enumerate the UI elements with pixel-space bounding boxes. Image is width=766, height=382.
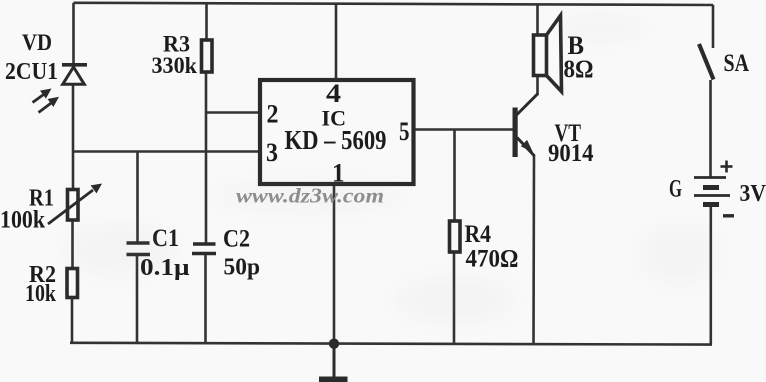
wire top supply rail: [74, 3, 714, 5]
wire left rail upper segment: [72, 3, 75, 64]
wire IC pin4 to supply rail: [335, 4, 338, 80]
svg-text:2: 2: [267, 100, 279, 129]
wire C1 top to node row: [136, 152, 139, 244]
ground symbol: [319, 343, 348, 382]
op-amp IC KD-5609 box: [260, 80, 414, 184]
transistor VT 9014: [513, 94, 539, 158]
label battery plus: [721, 161, 733, 173]
wire right rail top to switch: [712, 5, 715, 48]
wire IC pin2 to R3 line: [206, 111, 259, 114]
resistor R2: [67, 269, 78, 298]
wire IC pin1 to bottom rail: [333, 185, 336, 344]
wire bottom ground rail: [70, 343, 712, 345]
wire switch to battery positive: [709, 80, 712, 177]
svg-text:8Ω: 8Ω: [564, 56, 594, 83]
svg-text:3: 3: [266, 138, 278, 167]
wire emitter down to bottom rail: [532, 155, 535, 344]
svg-text:VD: VD: [22, 30, 52, 55]
svg-text:G: G: [669, 176, 682, 203]
svg-text:100k: 100k: [0, 207, 45, 234]
svg-text:5: 5: [399, 117, 410, 146]
wire speaker top to supply rail: [536, 4, 539, 35]
wire node row y=151 from left rail to IC pin3: [73, 150, 259, 153]
svg-text:50p: 50p: [224, 254, 261, 281]
label battery minus: [723, 214, 734, 217]
wire R3 top to supply rail: [205, 3, 208, 40]
resistor R4: [450, 221, 461, 252]
wire below R2 to bottom rail: [71, 299, 74, 344]
svg-text:KD – 5609: KD – 5609: [285, 125, 387, 155]
svg-text:C2: C2: [223, 226, 250, 253]
wire between R1 and R2: [71, 221, 74, 267]
svg-text:10k: 10k: [25, 281, 57, 307]
wire left rail below diode: [72, 84, 75, 189]
svg-text:3V: 3V: [740, 180, 766, 207]
resistor R3: [202, 40, 213, 72]
wire R4 top to pin5 wire: [453, 130, 456, 222]
photodiode VD 2CU1: [33, 65, 88, 113]
svg-text:330k: 330k: [152, 53, 198, 79]
faint scan smudges: [0, 0, 1, 1]
capacitor C2: [192, 244, 216, 254]
wire IC pin5 to transistor base: [415, 128, 514, 131]
wire battery negative to bottom rail: [709, 206, 712, 345]
capacitor C1: [127, 243, 151, 255]
svg-text:2CU1: 2CU1: [5, 59, 58, 85]
svg-text:4: 4: [326, 79, 341, 108]
potentiometer R1: [48, 184, 102, 225]
wire R4 bottom to bottom rail: [453, 253, 456, 344]
wire C1 bottom to bottom rail: [136, 254, 139, 344]
wire C2 bottom to bottom rail: [204, 254, 207, 344]
svg-text:SA: SA: [724, 50, 750, 77]
wire R3 bottom down to C2: [205, 73, 208, 243]
switch SA blade: [699, 44, 714, 80]
speaker B: [534, 16, 562, 92]
svg-text:470Ω: 470Ω: [466, 246, 519, 273]
battery G: [694, 178, 730, 205]
svg-text:9014: 9014: [548, 140, 594, 167]
junction node at IC pin1 / ground: [329, 339, 339, 349]
wire speaker bottom to collector: [536, 76, 539, 95]
svg-text:R4: R4: [465, 221, 492, 248]
